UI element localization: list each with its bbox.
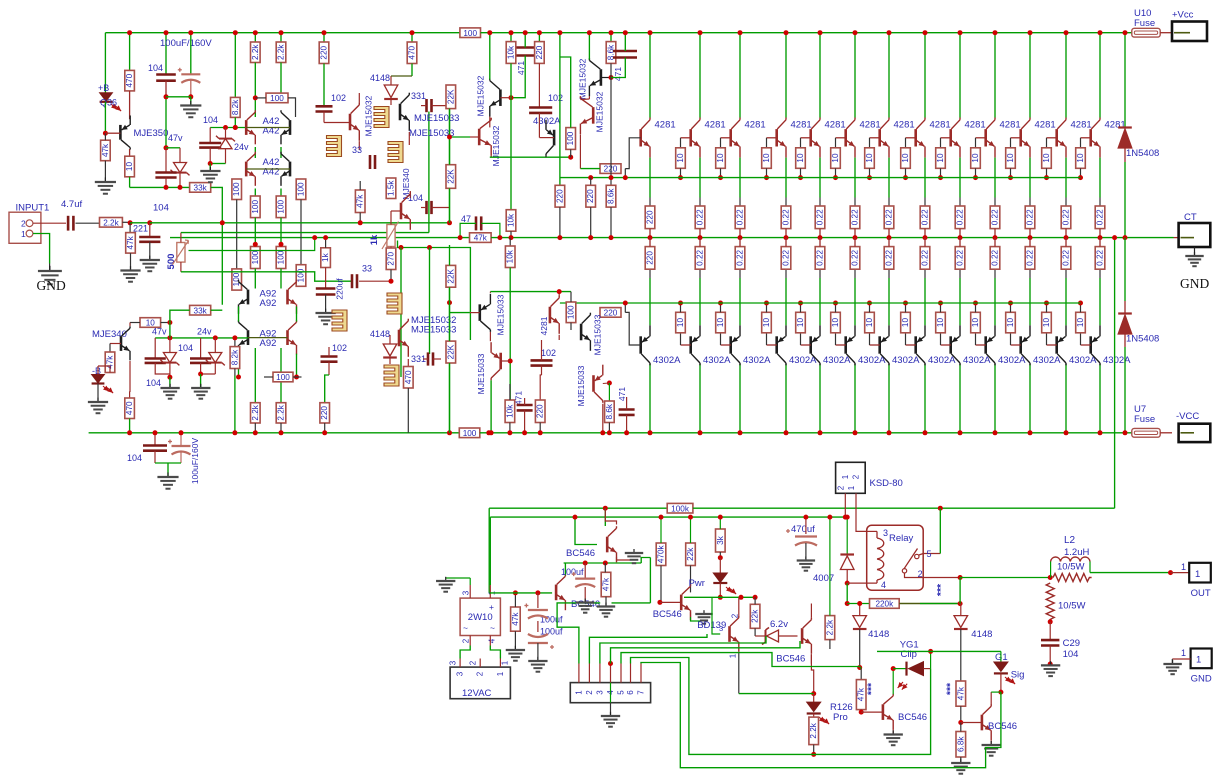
resistor 0.22 RE11 top [1025, 206, 1035, 229]
wire col 281 to 100 resistors [280, 189, 282, 197]
svg-text:10: 10 [125, 162, 134, 172]
wire nest pin5 [621, 653, 860, 667]
resistor 0.22 RE11 bottom [1025, 247, 1035, 270]
resistor 10 RB6 top [831, 148, 841, 169]
svg-text:4302A: 4302A [1033, 355, 1061, 366]
resistor 10/5W horizontal zigzag [1053, 574, 1092, 582]
svg-text:100: 100 [277, 200, 286, 214]
wire 220 box right riser [624, 169, 626, 178]
wire base Q11 [1011, 137, 1021, 139]
wire emitter Q2B [699, 278, 701, 325]
svg-text:7: 7 [637, 690, 646, 695]
wire base Q7B [870, 344, 880, 346]
svg-text:10/5W: 10/5W [1057, 562, 1084, 573]
ground [605, 603, 607, 607]
transistor 4302A Q13B [1089, 336, 1092, 353]
svg-text:4302A: 4302A [928, 355, 956, 366]
wire MJE15032 base left [324, 122, 350, 124]
resistor 10k R10k lower [505, 246, 515, 268]
wire emitter resistor to mid rail Q9B [959, 238, 961, 247]
wire c281 to A92 [280, 269, 282, 289]
svg-text:1k: 1k [369, 234, 380, 245]
svg-text:4281: 4281 [860, 120, 881, 131]
resistor 0.22 RE7 top [884, 206, 894, 229]
svg-text:104: 104 [148, 63, 163, 73]
svg-text:Pro: Pro [833, 712, 848, 723]
svg-text:3: 3 [456, 671, 465, 676]
svg-text:MJE15032: MJE15032 [595, 91, 605, 132]
ground [325, 309, 327, 313]
wire A42 lower bases [246, 168, 290, 170]
wire emitter resistor to mid rail Q3 [739, 229, 741, 238]
resistor 22K R22K c [446, 265, 456, 287]
capacitor 220uf plates [316, 287, 336, 290]
transistor 4281 Q5 [809, 129, 812, 146]
wire 471b column [624, 33, 626, 51]
wire fuse to +Vcc connector [1160, 32, 1172, 34]
svg-text:10: 10 [865, 318, 874, 328]
svg-text:470k: 470k [657, 544, 666, 563]
wire base Q11B [1011, 344, 1021, 346]
wire driver c emitter to d [588, 96, 590, 99]
wire A92 emitter columns to 2.2k bottom [254, 348, 256, 403]
svg-text:104: 104 [127, 453, 142, 463]
svg-text:47k: 47k [356, 194, 365, 208]
wire 272 line right [181, 272, 352, 281]
resistor 0.22 RE2 bottom [695, 247, 705, 270]
svg-text:Fuse: Fuse [1134, 414, 1155, 425]
transistor A92 c [247, 330, 250, 345]
wire vertical 429 up [428, 112, 430, 233]
svg-text:10: 10 [716, 153, 725, 163]
wire collector column Q8B bottom [924, 364, 926, 433]
svg-text:4007: 4007 [813, 573, 834, 584]
diode LED R126 Pro [813, 694, 815, 703]
resistor 0.22 RE4 top [781, 206, 791, 229]
resistor 0.22 RE3 top [735, 206, 745, 229]
svg-text:47k: 47k [474, 234, 488, 243]
svg-text:100: 100 [566, 131, 575, 145]
capacitor 102 mb plates [531, 359, 553, 362]
svg-text:4281: 4281 [1035, 120, 1056, 131]
wire base Q13 [1081, 137, 1091, 139]
electrolytic capacitor [528, 609, 548, 611]
wire BC546R base [961, 722, 982, 724]
wire base line 593 [489, 592, 552, 594]
connector -VCC [1179, 424, 1211, 442]
wire 4302A collector to bus [545, 156, 547, 157]
wire 7pin pin7 stub [640, 664, 642, 683]
transistor BC546 psu1 [555, 585, 558, 601]
svg-text:1: 1 [1195, 569, 1200, 580]
wire emitter Q6 [854, 158, 856, 198]
svg-text:0.22: 0.22 [851, 249, 860, 265]
heatsink pad [332, 310, 347, 331]
svg-text:Relay: Relay [889, 533, 914, 544]
resistor 47k R mid rail [470, 233, 492, 243]
relay switch contacts [915, 554, 919, 558]
wire MJE15033 links [391, 75, 412, 77]
wire emitter resistor to mid rail Q7B [888, 238, 890, 247]
wire emitter resistor to mid rail Q8 [924, 229, 926, 238]
ground [49, 266, 51, 271]
wire 33k lower leads [170, 310, 190, 322]
wire col 255 interstage [254, 147, 256, 158]
wire BC546L collector [892, 669, 894, 695]
wire base Q6 [836, 137, 846, 139]
svg-text:10: 10 [716, 318, 725, 328]
svg-text:Fuse: Fuse [1134, 18, 1155, 29]
wire emitter resistor to mid rail Q2B [699, 238, 701, 247]
svg-text:10: 10 [676, 153, 685, 163]
wire bias line top [210, 127, 246, 129]
svg-text:22K: 22K [446, 169, 455, 184]
electrolytic capacitor [172, 445, 191, 447]
resistor 10 RB10 bottom [971, 312, 981, 333]
svg-text:2: 2 [21, 218, 26, 228]
wire MJE340 mid links [409, 191, 411, 198]
zener 24v lower [214, 338, 216, 353]
trimmer 500 [177, 243, 185, 263]
svg-text:MJE15032: MJE15032 [491, 125, 501, 166]
diode 4148 bottom symbol [383, 356, 397, 358]
wire supply line 517 [490, 516, 845, 518]
svg-text:0.22: 0.22 [885, 249, 894, 265]
wire G1 to collector node [1000, 673, 1002, 692]
wire 10 lower leads [130, 322, 140, 324]
wire emitter Q3B [739, 278, 741, 325]
ground [1050, 661, 1052, 665]
resistor 10 RB2 top [676, 148, 686, 169]
svg-text:+B: +B [98, 83, 109, 93]
heatsink pad [387, 293, 402, 314]
svg-text:270: 270 [387, 251, 396, 265]
svg-text:1: 1 [21, 229, 26, 239]
wire base Q7 [870, 137, 880, 139]
svg-text:47v: 47v [168, 133, 183, 143]
wire 470 lower to rail [129, 419, 131, 433]
resistor 100 R100 c237 b [232, 269, 242, 290]
wire nest pin6 [631, 658, 931, 755]
resistor 2.2k R2.2k col 281.0 [276, 42, 286, 63]
svg-text:10: 10 [831, 153, 840, 163]
wire L2 to OUT [1090, 572, 1171, 574]
svg-text:12VAC: 12VAC [462, 688, 492, 699]
resistor 100 R100 c301 b [296, 265, 306, 287]
wire emitter Q2 [699, 158, 701, 198]
svg-text:0.22: 0.22 [991, 249, 1000, 265]
svg-text:104: 104 [146, 378, 161, 388]
transistor BC546 prot right [981, 715, 984, 731]
resistor 47k R47k input [126, 233, 136, 254]
wire zener cluster to ground [210, 163, 225, 165]
svg-text:GND: GND [1191, 674, 1212, 685]
resistor 47k input [129, 223, 131, 233]
connector 7-pin [570, 683, 650, 703]
resistor 10 RB12 bottom [1042, 312, 1052, 333]
resistor 47k R47k psu [511, 607, 521, 631]
wire emitter Q8 [924, 158, 926, 198]
wire vertical 449 up [449, 109, 451, 223]
transistor MJE15033 g black [580, 324, 583, 341]
resistor 10 RB4 top [762, 148, 772, 169]
ground [190, 101, 192, 106]
wire MJE350 collector to 10 [129, 149, 131, 156]
wire emitter Q11B [1029, 278, 1031, 325]
svg-text:4281: 4281 [791, 120, 812, 131]
wire KSD pin2 to relay [856, 493, 867, 531]
svg-text:Pwr: Pwr [689, 578, 705, 589]
svg-text:4281: 4281 [894, 120, 915, 131]
svg-text:220: 220 [646, 210, 655, 224]
wire emitter resistor to mid rail Q6B [854, 238, 856, 247]
wire emitter Q13 [1099, 158, 1101, 198]
diode LED Pwr [719, 558, 721, 573]
wire base Q5 [801, 137, 811, 139]
resistor 100 R100 c255 b [251, 247, 261, 269]
wire driver b emitter to bus [490, 156, 492, 157]
svg-text:10: 10 [1042, 153, 1051, 163]
wire emitter resistor to mid rail Q12 [1065, 229, 1067, 238]
svg-text:4302A: 4302A [533, 116, 561, 127]
svg-text:220: 220 [535, 45, 544, 59]
resistor 1.5k R1.5k [386, 178, 396, 199]
transistor A92 d [286, 330, 289, 345]
transistor 4281 Q13 [1089, 129, 1092, 146]
svg-text:4148: 4148 [971, 629, 992, 640]
ground [633, 549, 635, 553]
wire 10 to 33k line [129, 177, 131, 188]
resistor 0.22 RE7 bottom [884, 247, 894, 270]
svg-text:10: 10 [865, 153, 874, 163]
wire pin1 staircase [557, 603, 579, 664]
svg-text:10: 10 [971, 153, 980, 163]
svg-text:2: 2 [469, 660, 478, 665]
wire collector column Q1 top [649, 33, 651, 118]
ground [805, 557, 807, 561]
svg-text:22K: 22K [446, 89, 455, 104]
diode 1N5408 top [1118, 126, 1132, 128]
svg-text:2: 2 [585, 690, 594, 695]
resistor 0.22 RE4 bottom [781, 247, 791, 270]
transistor A42 b [289, 120, 292, 135]
wire LED -B connections [97, 366, 99, 375]
wire collector column Q4B bottom [785, 364, 787, 433]
transistor 4302A Q7B [878, 336, 881, 353]
resistor 22k R22k cluster [750, 604, 760, 628]
wire -Vcc bottom rail right [480, 432, 1132, 434]
svg-text:100: 100 [277, 250, 286, 264]
resistor 10 RB10 top [971, 148, 981, 169]
wire emitter resistor to mid rail Q9 [959, 229, 961, 238]
resistor 100 R top rail [460, 28, 481, 38]
wire emitter resistor to mid rail Q13B [1099, 238, 1101, 247]
wire base Q9B [941, 344, 951, 346]
svg-text:10k: 10k [507, 213, 516, 227]
svg-text:104: 104 [153, 203, 169, 214]
wire GND connector lead [1172, 658, 1190, 660]
resistor 0.22 RE8 bottom [920, 247, 930, 270]
wire emitter resistor to mid rail Q8B [924, 238, 926, 247]
wire base Q2 [681, 137, 691, 139]
svg-text:102: 102 [548, 93, 563, 103]
wire 7pin pin4 ground [608, 661, 613, 666]
wire base Q5B [801, 344, 811, 346]
wire A42 pair bases [246, 127, 290, 129]
svg-text:0.22: 0.22 [921, 209, 930, 225]
svg-text:0.22: 0.22 [921, 249, 930, 265]
capacitor 331 bottom plates [427, 352, 430, 365]
svg-text:10: 10 [901, 318, 910, 328]
wire collector column Q7B bottom [888, 364, 890, 433]
svg-text:4281: 4281 [655, 120, 676, 131]
wire collector column Q3 top [739, 33, 741, 118]
ground [169, 384, 171, 388]
wire 2.2k to node [122, 221, 130, 223]
svg-text:4302A: 4302A [1069, 355, 1097, 366]
resistor 0.22 RE12 bottom [1061, 247, 1071, 270]
svg-text:24v: 24v [234, 142, 249, 152]
transistor 4281 Q7 [878, 129, 881, 146]
wire 471a column [524, 33, 526, 48]
svg-text:10: 10 [1042, 318, 1051, 328]
inductor L2 [1051, 557, 1061, 562]
svg-text:470: 470 [125, 401, 134, 415]
wire 4007 to 220k node [846, 583, 848, 603]
wire 100k sense line [489, 507, 667, 509]
svg-text:0.22: 0.22 [816, 249, 825, 265]
svg-text:100: 100 [270, 94, 284, 103]
svg-text:10: 10 [762, 318, 771, 328]
wire base Q10 [976, 137, 986, 139]
svg-text:47k: 47k [956, 686, 965, 700]
wire nest base line [739, 693, 814, 695]
wire emitter resistor to mid rail Q11B [1029, 238, 1031, 247]
wire emitter Q9 [959, 158, 961, 198]
wire emitter Q12B [1065, 278, 1067, 325]
svg-text:3: 3 [883, 528, 888, 538]
wire out to 220k node [959, 578, 961, 604]
wire 10k column 511 [510, 33, 512, 42]
capacitor 102 lb plates [321, 355, 338, 358]
svg-text:220: 220 [586, 189, 595, 203]
svg-text:BC546: BC546 [776, 654, 805, 665]
ground [610, 712, 612, 716]
transistor 4302A Q3B [729, 336, 732, 353]
wire base Q12 [1047, 137, 1057, 139]
resistor 220 R220 eb1 [535, 400, 545, 423]
svg-text:10: 10 [901, 153, 910, 163]
resistor 220 R220 e2 [586, 185, 596, 207]
resistor 100 R100 c570 [566, 128, 576, 150]
wire 220 column 539 [538, 33, 540, 42]
resistor 10 RB7 top [865, 148, 875, 169]
wire 33k to down node [211, 187, 223, 304]
wire +Vcc top rail right [481, 32, 1132, 34]
wire 2.2k column [280, 33, 282, 42]
wire emitter Q10B [994, 278, 996, 325]
svg-text:6: 6 [626, 690, 635, 695]
wire 7pin pin6 stub [630, 664, 632, 683]
heatsink pad [384, 365, 399, 386]
svg-text:10: 10 [971, 318, 980, 328]
svg-text:22k: 22k [686, 547, 695, 561]
wire collector column Q2B bottom [699, 364, 701, 433]
resistor 8.2k R8.2k bottom [230, 347, 240, 369]
wire collector column Q10B bottom [994, 364, 996, 433]
svg-text:A92: A92 [260, 338, 277, 349]
heatsink pad [327, 136, 342, 157]
resistor 47k R47k psu2 [601, 572, 611, 596]
svg-text:2.2k: 2.2k [251, 44, 260, 60]
wire clip top line [877, 650, 1001, 652]
svg-text:4302A: 4302A [703, 355, 731, 366]
wire base Q9 [941, 137, 951, 139]
transistor 4302A Q4B [775, 336, 778, 353]
svg-text:47k: 47k [101, 143, 110, 157]
resistor 33k R33k top [190, 183, 211, 193]
svg-text:100uF/160V: 100uF/160V [190, 438, 200, 485]
wire base bus bottom bank [560, 302, 1081, 304]
ground [703, 610, 705, 614]
ground [209, 167, 211, 171]
transistor 4302A Q9B [949, 336, 952, 353]
svg-text:4.7uf: 4.7uf [61, 199, 82, 210]
svg-text:3: 3 [595, 690, 604, 695]
connector INPUT1 [9, 212, 41, 243]
wire emitter Q5 [819, 158, 821, 198]
svg-text:47: 47 [461, 214, 471, 224]
svg-text:2: 2 [476, 671, 485, 676]
resistor 220 RB1 top [600, 164, 621, 174]
wire emitter Q7 [888, 158, 890, 198]
wire 12VAC pins [459, 659, 461, 668]
wire emitter Q11 [1029, 158, 1031, 198]
resistor 0.22 RE2 top [695, 206, 705, 229]
svg-text:47k: 47k [126, 235, 135, 249]
wire emitter Q8B [924, 278, 926, 325]
ground [1172, 660, 1174, 664]
wire 8.2k to bias line [234, 117, 236, 127]
svg-text:470: 470 [404, 370, 413, 384]
transistor 4281 Q1 [639, 129, 642, 146]
svg-text:5: 5 [617, 690, 626, 695]
svg-text:1.5k: 1.5k [387, 180, 396, 196]
ground [990, 741, 992, 745]
svg-text:220: 220 [320, 45, 329, 59]
wire BD139 base [712, 597, 720, 634]
svg-text:3: 3 [719, 624, 723, 633]
svg-text:BC546: BC546 [566, 548, 595, 559]
svg-text:***: *** [866, 682, 878, 695]
wire MJE340 emitter down [129, 361, 131, 392]
wire base bus riser bottom [625, 312, 640, 345]
svg-text:4302A: 4302A [823, 355, 851, 366]
svg-text:4148: 4148 [868, 629, 889, 640]
resistor 100 R100 c237 top [232, 179, 242, 200]
svg-text:2: 2 [837, 485, 846, 490]
svg-text:8.2k: 8.2k [230, 349, 239, 365]
wire base Q6B [836, 344, 846, 346]
resistor 0.22 RE6 bottom [850, 247, 860, 270]
thermal switch KSD-80 [836, 462, 866, 493]
svg-text:102: 102 [541, 348, 556, 358]
wire collector column Q4 top [785, 33, 787, 118]
transistor 4281 Q9 [949, 129, 952, 146]
svg-text:33: 33 [352, 145, 362, 155]
svg-text:0.22: 0.22 [816, 209, 825, 225]
svg-text:104: 104 [203, 115, 218, 125]
